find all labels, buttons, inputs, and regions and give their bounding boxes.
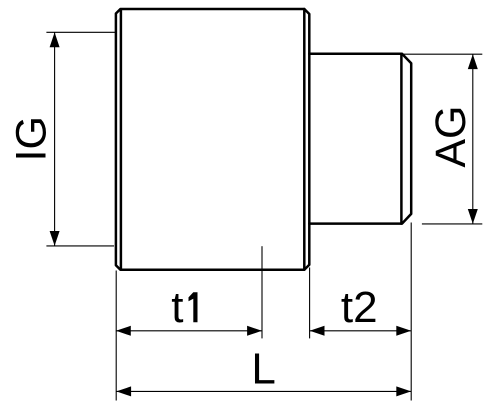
IG dimension line xyxy=(54,32,56,246)
AG extension line bottom xyxy=(422,223,482,225)
L extension line right xyxy=(410,223,412,401)
AG arrow up xyxy=(468,54,478,69)
L arrow left xyxy=(116,386,131,396)
t1 dimension line xyxy=(116,330,262,332)
t2 arrow right xyxy=(396,326,411,336)
t1 arrow left xyxy=(116,326,131,336)
t2 dimension line xyxy=(310,330,412,332)
IG arrow down xyxy=(50,231,60,246)
IG extension line bottom xyxy=(46,245,114,247)
IG extension line top xyxy=(46,31,116,33)
label t1 digit 1 xyxy=(189,292,198,322)
t2 arrow left xyxy=(310,326,325,336)
AG extension line top xyxy=(402,53,482,55)
L arrow right xyxy=(396,386,411,396)
IG arrow up xyxy=(50,32,60,47)
svg-text:IG: IG xyxy=(8,116,56,161)
spigot chamfer edge line xyxy=(400,54,403,224)
spigot outline xyxy=(309,54,411,224)
L extension line left xyxy=(115,271,117,401)
AG dimension line xyxy=(472,54,474,224)
t1 arrow right xyxy=(247,326,262,336)
t2 extension line left xyxy=(309,268,311,339)
body left chamfer edge line xyxy=(120,9,123,269)
fitting body outline xyxy=(116,9,309,270)
AG arrow down xyxy=(468,209,478,224)
svg-text:t: t xyxy=(171,283,183,332)
body right chamfer edge line xyxy=(303,9,306,270)
L dimension line xyxy=(116,390,411,392)
svg-text:L: L xyxy=(251,345,275,394)
svg-text:t2: t2 xyxy=(341,283,378,332)
t1 extension line right xyxy=(261,246,263,338)
svg-text:AG: AG xyxy=(427,106,475,168)
